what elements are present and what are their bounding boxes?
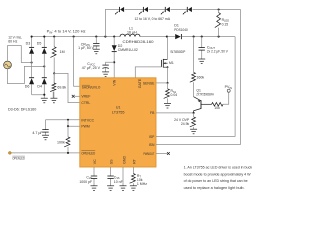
- label C2 value: [78, 42, 94, 50]
- svg-text:12 to 16 V, 0 to 667 mA: 12 to 16 V, 0 to 667 mA: [135, 17, 171, 21]
- svg-text:D3: D3: [26, 41, 31, 45]
- svg-text:LT3755: LT3755: [112, 110, 125, 114]
- inductor L1 16uH: [120, 34, 140, 37]
- svg-text:4.7 µF: 4.7 µF: [32, 131, 43, 135]
- ground C5: [91, 186, 98, 191]
- pin ISP: [149, 135, 155, 139]
- capacitor C2 1uF 50V: [93, 37, 99, 50]
- svg-text:SS: SS: [110, 159, 114, 164]
- svg-text:1000 pF: 1000 pF: [79, 180, 92, 184]
- led D8: [139, 7, 148, 15]
- resistor R9 RLED 0.15: [215, 10, 221, 37]
- no-connect VREF: [72, 95, 80, 98]
- wire bridge left branch: [31, 37, 33, 95]
- label PVIN: [225, 85, 233, 90]
- wire GND pin down: [122, 167, 124, 186]
- label C4: [32, 131, 43, 135]
- svg-text:of dc power to an LED string t: of dc power to an LED string that can be: [184, 178, 248, 183]
- svg-text:D3-D6: DFLS160: D3-D6: DFLS160: [8, 108, 36, 112]
- svg-text:CMMR1U-02: CMMR1U-02: [118, 48, 138, 52]
- svg-text:VC: VC: [93, 159, 97, 164]
- diode D3: [29, 47, 34, 53]
- label R8 10k: [214, 106, 220, 110]
- svg-text:10k: 10k: [214, 106, 220, 110]
- wire FB line: [156, 112, 195, 114]
- ground C4: [42, 135, 49, 140]
- capacitor C3 47uF 25V electrolytic: [102, 62, 114, 72]
- pin PWMOUT: [143, 152, 154, 156]
- led D7: [115, 7, 124, 15]
- svg-text:used to replace a halogen ligh: used to replace a halogen light bulb.: [184, 185, 245, 190]
- svg-text:D1: D1: [174, 24, 179, 28]
- pin INTVCC: [81, 118, 94, 122]
- led D9: [161, 7, 170, 15]
- label Q1: [196, 89, 214, 97]
- svg-text:1. An LT3755 ac LED driver is: 1. An LT3755 ac LED driver is used in bu…: [184, 165, 253, 170]
- wire OPENLED line: [10, 152, 80, 154]
- resistor R1 1M: [50, 37, 56, 74]
- capacitor C5 1000pF: [91, 176, 97, 179]
- svg-text:CDRH6D28-160: CDRH6D28-160: [123, 40, 154, 44]
- svg-text:69.8k: 69.8k: [57, 85, 66, 89]
- pin ISN: [149, 143, 155, 147]
- svg-text:INTVCC: INTVCC: [81, 118, 94, 122]
- wire ac top terminal to bridge left midpoint: [8, 46, 33, 64]
- wire led string seg2: [125, 9, 144, 11]
- pin RT: [133, 158, 137, 164]
- label M1: [169, 61, 174, 65]
- label D3: [26, 41, 31, 45]
- svg-text:SENSE: SENSE: [143, 81, 155, 85]
- ground R7: [190, 129, 197, 134]
- resistor R2 69.8k: [50, 73, 56, 98]
- svg-text:RT: RT: [133, 158, 137, 164]
- svg-text:ISN: ISN: [149, 143, 155, 147]
- svg-text:CTRL: CTRL: [81, 101, 90, 105]
- node sense: [166, 82, 168, 84]
- svg-text:GND: GND: [123, 156, 127, 164]
- resistor R4 100k: [64, 126, 70, 153]
- svg-text:D4: D4: [37, 85, 42, 89]
- svg-text:2x 2.2 µF, 50 V: 2x 2.2 µF, 50 V: [207, 49, 229, 53]
- note text: [184, 165, 253, 190]
- svg-text:OPENLED: OPENLED: [12, 156, 25, 160]
- label OPENLED terminal: [12, 156, 25, 160]
- label R9: [222, 18, 230, 26]
- ground R5: [130, 186, 137, 191]
- svg-text:0.15: 0.15: [222, 22, 229, 26]
- capacitor C6 10nF: [107, 176, 113, 179]
- label led string rating: [135, 17, 171, 21]
- svg-text:D5: D5: [37, 41, 42, 45]
- ground C7: [198, 59, 205, 64]
- svg-text:PDS1040: PDS1040: [174, 28, 188, 32]
- label D5: [37, 41, 42, 45]
- pin PWM: [81, 125, 89, 129]
- label D4: [37, 85, 42, 89]
- pin VC: [93, 159, 97, 164]
- diode D1: [175, 34, 181, 39]
- label R3: [171, 89, 178, 97]
- ground bridge: [41, 98, 48, 103]
- pin OPENLED: [81, 151, 95, 156]
- svg-text:60 Hz: 60 Hz: [8, 39, 17, 43]
- wire VC pin down: [93, 167, 95, 186]
- wire R8 to PVIN: [223, 92, 229, 104]
- capacitor C4 4.7uF: [42, 120, 48, 135]
- label D2: [118, 44, 138, 52]
- pin GND: [123, 156, 127, 164]
- label D6: [25, 85, 30, 89]
- terminal OPENLED: [8, 152, 11, 155]
- wire led string seg3: [149, 9, 166, 11]
- svg-text:100k: 100k: [57, 140, 65, 144]
- svg-text:SHDN/UVLO: SHDN/UVLO: [82, 86, 101, 90]
- svg-text:16 µH: 16 µH: [127, 31, 137, 35]
- node divider tap: [53, 72, 55, 74]
- wire rail after L1: [140, 36, 175, 38]
- diode D5: [42, 47, 47, 53]
- pin VIN: [113, 79, 117, 85]
- resistor R8 10k: [212, 103, 223, 107]
- label L1 part number: [123, 40, 154, 44]
- pin CTRL: [81, 101, 90, 105]
- transistor M1 mosfet: [162, 37, 169, 83]
- label R4 100k: [57, 140, 65, 144]
- svg-text:ISP: ISP: [149, 135, 155, 139]
- wire Vout rail: [182, 36, 236, 38]
- resistor R5 RT 10k: [130, 167, 136, 186]
- label C6: [114, 175, 123, 183]
- svg-text:0.04: 0.04: [171, 93, 178, 97]
- ac source V1 12V rms 60Hz: [4, 61, 12, 69]
- label R6 160k: [196, 76, 204, 80]
- wire rail to SHDN/UVLO pin: [74, 37, 80, 87]
- pin SENSE: [143, 81, 155, 85]
- svg-text:VIN: VIN: [113, 79, 117, 85]
- wire bridge right branch: [43, 37, 45, 95]
- svg-text:U1: U1: [116, 106, 121, 110]
- svg-text:D6: D6: [25, 85, 30, 89]
- wire GATE pin to mosfet gate: [135, 67, 161, 78]
- svg-text:47 µF, 25 V: 47 µF, 25 V: [82, 66, 101, 70]
- label C5: [79, 175, 92, 183]
- wire ISP return: [156, 37, 235, 137]
- label L1: [127, 27, 137, 35]
- resistor R6 160k: [190, 37, 196, 97]
- wire divider tap to CTRL pin: [54, 73, 80, 102]
- svg-text:ZXTP25060BFH: ZXTP25060BFH: [196, 93, 214, 97]
- diode D4: [42, 78, 47, 85]
- svg-text:PIN: 4 to 14 V, 120 Hz: PIN: 4 to 14 V, 120 Hz: [47, 30, 86, 35]
- svg-text:VREF: VREF: [81, 95, 90, 99]
- label R5: [137, 174, 147, 186]
- label V1 value: [8, 36, 22, 44]
- label R7: [174, 118, 190, 126]
- ground GND pin: [120, 186, 127, 191]
- pin FB: [150, 111, 155, 115]
- svg-text:PWMOUT: PWMOUT: [143, 152, 154, 156]
- svg-text:FB: FB: [150, 111, 155, 115]
- svg-text:10 nF: 10 nF: [114, 180, 123, 184]
- pin VREF: [81, 95, 90, 99]
- label PIN rail: [47, 30, 86, 35]
- svg-text:boost mode to provide approxim: boost mode to provide approximately 4 W: [184, 171, 251, 176]
- label R1 1M: [60, 50, 65, 54]
- wire PWM tie: [67, 120, 80, 127]
- wire input rail PIN: [31, 36, 120, 38]
- wire sense to IC: [156, 82, 168, 84]
- label C7: [207, 45, 229, 53]
- wire ISN return: [156, 10, 241, 145]
- wire led string to right edge: [193, 8, 241, 10]
- svg-text:24.9k: 24.9k: [181, 122, 190, 126]
- op-amp U1 LT3755 body: [80, 78, 156, 167]
- ground R3: [164, 103, 171, 108]
- ground C6: [107, 186, 114, 191]
- label U1: [112, 106, 125, 115]
- label diode part numbers D3-D6: [8, 108, 36, 112]
- svg-text:1M: 1M: [60, 50, 65, 54]
- wire bridge bottom: [32, 94, 46, 99]
- transistor Q1 pnp: [194, 97, 212, 113]
- svg-text:OPENLED: OPENLED: [81, 151, 95, 155]
- label D1: [174, 24, 188, 33]
- svg-text:M1: M1: [169, 61, 174, 65]
- label R2 69.8k: [57, 85, 66, 89]
- diode D2: [112, 37, 117, 78]
- ground C3: [102, 72, 109, 77]
- wire led string seg4: [171, 9, 188, 11]
- svg-text:GATE: GATE: [138, 78, 142, 88]
- ground divider: [50, 98, 57, 103]
- wire INTVCC line: [46, 119, 80, 121]
- pin SHDN/UVLO: [82, 85, 101, 89]
- pin GATE: [138, 78, 142, 88]
- pin SS: [110, 159, 114, 164]
- resistor R7 24.9k: [190, 113, 196, 129]
- label C3 value: [82, 62, 101, 70]
- ground C2: [93, 49, 100, 54]
- wire rail to led string: [105, 10, 119, 37]
- svg-text:Si7850DP: Si7850DP: [170, 50, 186, 54]
- label M1 part: [170, 50, 186, 54]
- resistor R3 0.04 sense: [164, 83, 170, 104]
- led D10: [183, 7, 192, 15]
- terminal PVIN: [227, 89, 230, 92]
- svg-text:1 MHz: 1 MHz: [137, 182, 147, 186]
- svg-text:1 µF, 50 V: 1 µF, 50 V: [78, 46, 94, 50]
- wire SS pin down: [110, 167, 112, 186]
- svg-text:160k: 160k: [196, 76, 204, 80]
- diode D6: [29, 78, 34, 85]
- capacitor C7 COUT: [199, 37, 205, 59]
- wire ac bottom terminal to bridge right midpoint: [8, 65, 46, 83]
- svg-text:PWM: PWM: [81, 125, 89, 129]
- no-connect PWMOUT: [156, 152, 170, 155]
